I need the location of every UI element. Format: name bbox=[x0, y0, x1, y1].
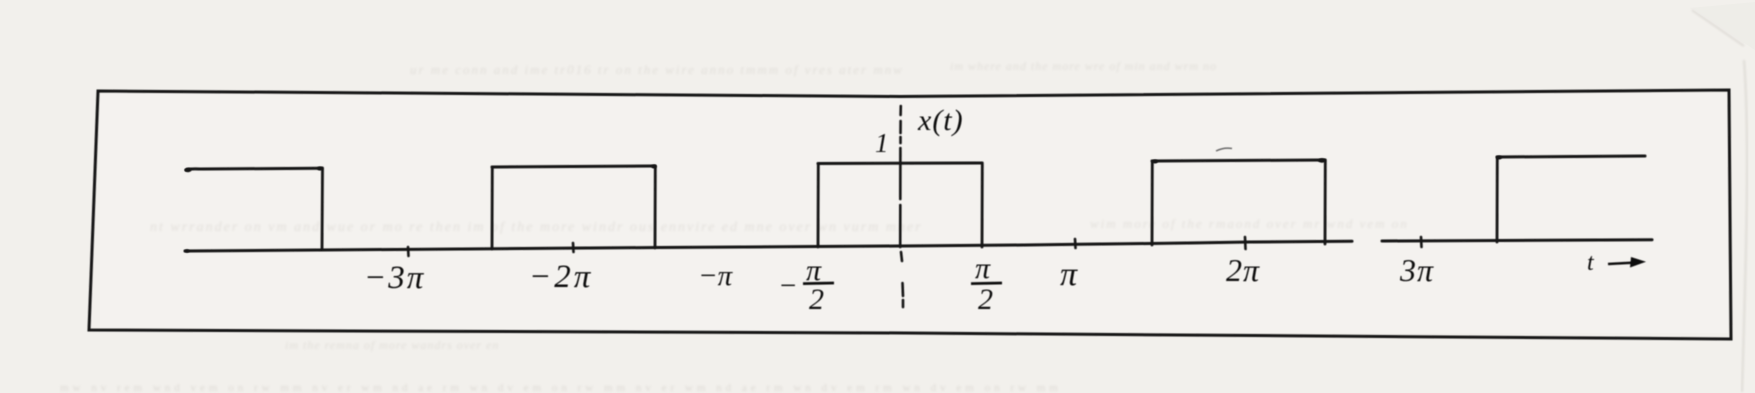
tick 2pi bbox=[1244, 237, 1247, 249]
pulse 2 right edge bbox=[654, 166, 657, 248]
svg-text:nt wrrander on vm and wue or m: nt wrrander on vm and wue or mo re then … bbox=[150, 220, 923, 235]
tick 3pi bbox=[1420, 237, 1423, 247]
svg-text:−: − bbox=[778, 270, 798, 302]
svg-text:2: 2 bbox=[809, 283, 824, 316]
pulse 3 left edge bbox=[817, 164, 820, 248]
tick -3pi bbox=[407, 247, 410, 256]
svg-text:ur me conn and ime tr016 tr on: ur me conn and ime tr016 tr on the wire … bbox=[410, 62, 904, 77]
svg-text:wim more of the rmaond over mr: wim more of the rmaond over mr wnd vem o… bbox=[1090, 216, 1409, 231]
pulse 3 top bbox=[818, 162, 982, 166]
pulse 5 top bbox=[1497, 156, 1645, 157]
ink blob pulse1 corner bbox=[317, 167, 323, 171]
svg-text:π: π bbox=[975, 252, 991, 285]
ink blob pulse1 top left end bbox=[185, 168, 192, 172]
svg-text:1: 1 bbox=[875, 128, 889, 158]
pulse 4 top bbox=[1152, 160, 1325, 161]
pulse 3 right edge bbox=[981, 163, 984, 247]
ink blob pulse4 top left corner bbox=[1152, 160, 1158, 164]
hand drawn border frame, decorative bbox=[89, 90, 1731, 339]
pulse 4 right edge bbox=[1324, 160, 1327, 244]
svg-text:im where and the more wre of m: im where and the more wre of min and wrm… bbox=[950, 59, 1217, 73]
ink blob pulse2 top right corner bbox=[651, 165, 657, 169]
svg-text:2: 2 bbox=[978, 283, 993, 316]
ink blob axis left end bbox=[185, 249, 190, 253]
label pi/2 fraction bbox=[971, 252, 1002, 316]
svg-text:3π: 3π bbox=[1399, 252, 1434, 288]
x axis right segment bbox=[1382, 240, 1652, 241]
svg-text:im the remna of more wandrs ov: im the remna of more wandrs over en bbox=[285, 338, 499, 352]
pulse 1 right edge bbox=[321, 168, 324, 249]
svg-text:π: π bbox=[1060, 256, 1078, 293]
svg-text:2π: 2π bbox=[1226, 252, 1260, 288]
pulse 2 left edge bbox=[491, 167, 494, 249]
svg-text:mw nv rem wnd vem on rw mm nv: mw nv rem wnd vem on rw mm nv er wm nd a… bbox=[60, 382, 1062, 393]
svg-text:−3π: −3π bbox=[364, 260, 425, 296]
pulse 4 left edge bbox=[1151, 161, 1154, 245]
tick -2pi bbox=[572, 243, 575, 252]
tick pi bbox=[1074, 239, 1077, 248]
pulse 1 top bbox=[186, 168, 322, 170]
x axis main segment bbox=[185, 241, 1352, 251]
svg-text:−2π: −2π bbox=[529, 259, 593, 295]
label -pi/2 fraction bbox=[778, 254, 834, 316]
pulse 2 top bbox=[492, 166, 655, 167]
page fold top right corner, decorative bbox=[1692, 10, 1744, 46]
ink blob pulse4 top right corner bbox=[1318, 158, 1326, 162]
stray scribble above pulse4 bbox=[1216, 148, 1232, 151]
y axis dashed vertical bbox=[900, 106, 903, 307]
svg-text:−π: −π bbox=[698, 260, 734, 292]
svg-text:x(t): x(t) bbox=[917, 104, 964, 137]
ink blob pulse5 top left corner bbox=[1496, 156, 1502, 160]
pulse 5 left edge bbox=[1496, 157, 1499, 242]
